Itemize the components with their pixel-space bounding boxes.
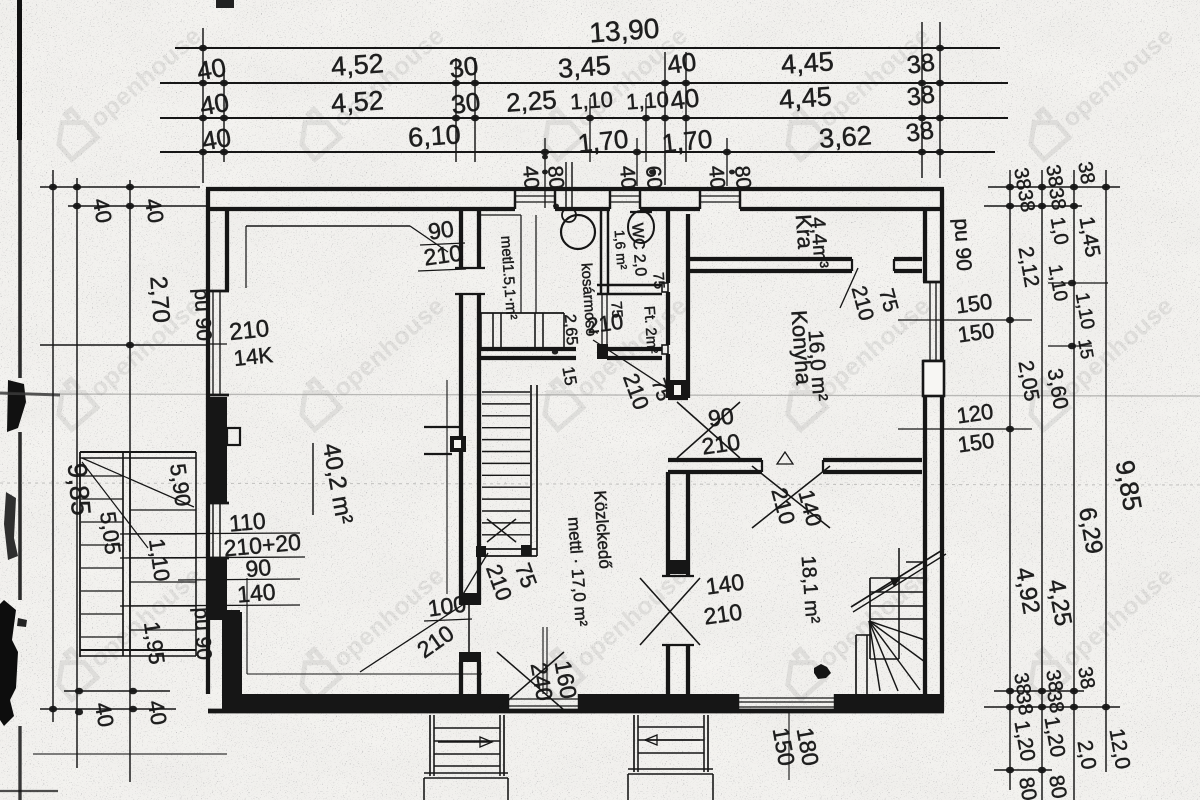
svg-text:2,25: 2,25: [505, 84, 558, 117]
entry door cross mark: [497, 652, 564, 710]
right vertical dimension line 2: [1041, 170, 1043, 800]
svg-text:140: 140: [704, 569, 746, 600]
left wall solid segment 1: [206, 397, 227, 503]
svg-text:40: 40: [88, 196, 117, 224]
svg-text:1,6 m²: 1,6 m²: [612, 229, 631, 270]
scan artifact: fold line 1: [0, 394, 1200, 396]
hall-kitchen wall east line: [686, 214, 690, 398]
central staircase right rail: [530, 385, 532, 556]
svg-text:40: 40: [704, 165, 729, 190]
right exterior wall outer line: [940, 189, 944, 711]
left wall radiator pier: [227, 428, 240, 445]
wall A door jamb lines: [424, 426, 461, 428]
scan artifact: left edge bar: [17, 0, 22, 140]
top exterior wall inner line with window gaps: [206, 207, 515, 211]
right dim tick y187: [988, 186, 1120, 188]
kitchen window 1 dim line: [898, 319, 1032, 321]
hall-kitchen wall black jamb with slot: [670, 380, 686, 400]
top dimension chain line 3: [160, 117, 1008, 119]
svg-text:1,70: 1,70: [576, 123, 629, 158]
left exterior wall outer line: [206, 189, 210, 694]
right dim tick y346: [1048, 345, 1092, 347]
svg-text:38: 38: [1041, 163, 1067, 189]
left window dimension line 210/14K: [40, 344, 208, 346]
svg-text:80: 80: [1044, 773, 1071, 800]
svg-text:4,45: 4,45: [778, 81, 833, 115]
svg-text:1,10: 1,10: [569, 87, 613, 115]
scan artifact: top edge mark: [216, 0, 234, 8]
svg-text:210: 210: [700, 429, 742, 460]
svg-text:pu 90: pu 90: [190, 288, 216, 342]
svg-text:15: 15: [558, 365, 580, 387]
svg-text:40: 40: [615, 165, 640, 190]
right dim tick y283: [1048, 282, 1108, 284]
kitchen-room door cross: [752, 466, 830, 528]
left wall solid segment 2: [206, 558, 227, 614]
scan artifact: bottom-left line: [33, 753, 227, 755]
svg-text:4,52: 4,52: [330, 48, 385, 82]
svg-text:210: 210: [422, 240, 464, 271]
right vertical dimension line 3: [1073, 170, 1075, 800]
svg-text:150: 150: [956, 318, 996, 348]
interior wall living-hall east line: [477, 209, 481, 268]
bottom-left dimension ticks: [64, 690, 170, 692]
WC south wall: [597, 284, 662, 286]
svg-text:90: 90: [244, 554, 272, 582]
central staircase treads: [482, 391, 530, 393]
stair door leader and labels 210 75: [462, 553, 488, 596]
svg-text:140: 140: [236, 578, 276, 607]
left dimension tick line 1: [40, 186, 200, 188]
hall-kitchen wall notches: [662, 283, 668, 292]
right vertical dimension line 4: [1105, 170, 1107, 772]
svg-text:40: 40: [665, 46, 698, 80]
terrace divider wall: [122, 452, 124, 656]
terrace steps right column: [130, 509, 196, 511]
top dimension chain line 2: [160, 82, 1008, 84]
winder staircase treads: [906, 561, 925, 563]
ink blot near staircase: [814, 664, 831, 679]
laundry cabinet lines: [520, 215, 522, 313]
svg-text:38: 38: [1073, 665, 1099, 691]
entry porch steps: [429, 715, 431, 776]
openhouse watermarks: [47, 13, 207, 160]
svg-text:4,4m³: 4,4m³: [806, 216, 832, 269]
wall A door jamb black pier: [450, 436, 466, 452]
second porch steps: [633, 715, 635, 772]
bottom exterior wall outer line: [208, 709, 944, 714]
entry door opening in bottom wall: [507, 694, 509, 711]
left wall window (210) sills and panes: [206, 290, 229, 293]
svg-text:60: 60: [641, 165, 666, 190]
svg-text:14K: 14K: [232, 342, 274, 371]
wall A bottom black cap: [459, 593, 481, 605]
winder staircase inner box: [869, 578, 871, 659]
kitchen door cross: [677, 402, 740, 458]
svg-text:30: 30: [449, 86, 482, 120]
svg-text:38: 38: [1013, 188, 1039, 214]
svg-text:38: 38: [1044, 186, 1070, 212]
left exterior wall inner line with openings: [225, 209, 229, 291]
svg-text:38: 38: [905, 80, 936, 112]
bath south wall black pier: [597, 344, 608, 359]
top dimension extension ticks: [202, 28, 204, 183]
svg-text:150: 150: [956, 428, 996, 458]
top wall window 2: [609, 189, 611, 209]
svg-text:pu 90: pu 90: [950, 218, 976, 272]
right dim tick y770: [994, 769, 1052, 771]
hall door leader: [360, 600, 470, 672]
svg-text:210: 210: [702, 599, 744, 630]
svg-text:80: 80: [543, 165, 568, 190]
central staircase bottom edge: [481, 548, 537, 550]
dim extension line inside living room: [246, 578, 248, 674]
svg-text:120: 120: [955, 399, 995, 429]
svg-text:40: 40: [140, 196, 169, 224]
svg-text:38: 38: [904, 116, 935, 148]
svg-text:80: 80: [730, 165, 755, 190]
left vertical dimension lines: [52, 170, 54, 722]
winder staircase fan treads: [869, 621, 925, 640]
svg-text:40: 40: [518, 165, 543, 190]
winder staircase left lower box: [855, 635, 857, 698]
svg-text:6,10: 6,10: [407, 119, 462, 153]
hall-kitchen wall west line: [666, 209, 670, 283]
second porch arrow: [645, 739, 700, 741]
top wall window 3: [699, 189, 701, 209]
living room beam line: [246, 225, 410, 227]
svg-text:13,90: 13,90: [588, 13, 660, 49]
svg-text:3,62: 3,62: [818, 120, 873, 154]
winder staircase railing diagonal: [851, 549, 944, 607]
interior wall living-hall west line: [459, 209, 463, 268]
kitchen-room wall north line: [668, 458, 762, 462]
svg-text:40: 40: [668, 82, 701, 116]
right dim tick y691: [994, 690, 1084, 692]
svg-text:40: 40: [200, 122, 234, 157]
scan artifact: blotch B: [4, 492, 18, 560]
svg-text:80: 80: [1014, 775, 1041, 800]
terrace diagonal leaders: [82, 458, 194, 507]
wall A lower stub: [468, 605, 470, 652]
right wall kitchen window 1: [923, 281, 944, 284]
bottom exterior wall solid segments: [222, 694, 508, 711]
laundry fixture band: [481, 312, 564, 314]
svg-text:Ft. 2m²: Ft. 2m²: [640, 305, 660, 354]
central staircase newel posts: [476, 546, 486, 557]
central staircase direction cross: [487, 519, 516, 542]
left dimension tick line 2: [68, 205, 207, 207]
scan artifact: fold line 2: [0, 483, 1200, 485]
kitchen window 2 dim line: [898, 428, 1032, 430]
WC west wall: [600, 209, 602, 294]
svg-text:4,52: 4,52: [330, 85, 385, 119]
svg-text:210: 210: [585, 309, 625, 339]
svg-text:2,70: 2,70: [144, 275, 174, 323]
svg-text:40: 40: [90, 700, 119, 728]
wall A opening caps: [455, 267, 485, 269]
svg-text:210: 210: [228, 315, 271, 346]
svg-text:150: 150: [954, 289, 994, 319]
svg-text:38: 38: [1073, 160, 1099, 186]
right vertical dimension line 1: [1009, 170, 1011, 790]
top dimension chain line 1 (13,90): [175, 47, 1000, 49]
entry door dim extensions: [542, 627, 544, 694]
winder staircase direction arrow: [878, 579, 900, 592]
svg-text:40: 40: [143, 698, 172, 726]
terrace door opening in bottom wall: [737, 694, 739, 711]
top exterior wall outer line: [206, 187, 944, 191]
pantry door leader and labels 210 75: [840, 268, 858, 308]
svg-text:9,85: 9,85: [62, 462, 96, 517]
left wall lower window: [206, 502, 229, 505]
svg-text:38: 38: [1011, 691, 1037, 717]
boiler circle: [561, 215, 595, 249]
hall-room wall east line: [686, 472, 690, 576]
terrace steps left column: [81, 475, 123, 477]
svg-text:75: 75: [649, 272, 667, 290]
svg-text:38: 38: [905, 48, 936, 80]
right dim tick y205: [984, 205, 1082, 207]
svg-text:40: 40: [195, 52, 229, 87]
svg-text:15: 15: [1074, 337, 1097, 360]
terrace outline left: [80, 451, 196, 453]
WC room bowl fixture: [628, 211, 654, 243]
entry porch arrow: [438, 741, 492, 743]
svg-text:90: 90: [706, 402, 735, 431]
svg-text:2,65: 2,65: [561, 314, 580, 346]
bath block south wall: [477, 347, 576, 351]
pantry south wall: [688, 257, 852, 261]
scan artifact: blotch 1: [7, 380, 26, 432]
hall-room wall caps: [662, 575, 694, 577]
svg-text:1,70: 1,70: [660, 123, 713, 158]
wall A parallel extension line: [446, 380, 448, 594]
right exterior wall inner line with window gaps: [923, 209, 927, 282]
svg-text:4,45: 4,45: [780, 46, 835, 80]
right wall kitchen window 2 (boxed): [923, 361, 944, 396]
chimney flue lines above wall: [565, 162, 567, 207]
hall-room wall west line: [666, 472, 670, 576]
left wall bottom jog (solid): [207, 610, 240, 620]
right dim tick y707: [984, 706, 1120, 708]
svg-text:1,10: 1,10: [625, 87, 669, 115]
svg-text:38: 38: [1042, 689, 1068, 715]
scan artifact: blotch 2: [0, 600, 18, 726]
top wall window 1: [514, 189, 516, 209]
beam leader diagonal: [410, 226, 448, 252]
svg-text:3,45: 3,45: [557, 50, 612, 84]
top dimension chain line 4: [160, 151, 995, 153]
kitchen-room wall south line: [668, 470, 762, 474]
hall-room door cross: [640, 578, 700, 645]
